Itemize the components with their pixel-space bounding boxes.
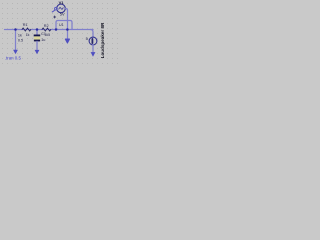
wire main node <box>5 29 94 31</box>
resistor R2 <box>42 28 51 31</box>
svg-text:1k: 1k <box>26 33 30 37</box>
wire capacitor to ground <box>36 41 38 50</box>
svg-text:1u: 1u <box>41 38 45 42</box>
wire left branch down <box>15 30 17 51</box>
wire V1 left stub <box>52 10 55 12</box>
node junction left <box>14 28 17 31</box>
node junction middle <box>66 28 69 31</box>
wire V1 right to down <box>66 9 68 40</box>
ground arrow left <box>13 50 18 54</box>
voltage source V1 <box>57 4 66 13</box>
capacitor C1 <box>34 35 41 42</box>
polarity mark <box>54 16 56 18</box>
resistor R1 <box>22 28 31 31</box>
svg-text:Loudspeaker 8R: Loudspeaker 8R <box>100 22 105 58</box>
wire capacitor branch <box>36 30 38 35</box>
svg-text:V1: V1 <box>59 0 65 5</box>
svg-text:.tran 0.5: .tran 0.5 <box>5 56 22 61</box>
ground arrow middle <box>65 39 69 43</box>
svg-text:R1: R1 <box>23 23 28 27</box>
svg-text:R2: R2 <box>44 24 49 28</box>
wire loop horizontal <box>56 21 72 30</box>
ground arrow capacitor <box>35 50 40 54</box>
svg-text:1k5: 1k5 <box>44 33 50 37</box>
wire right corner down <box>91 30 94 38</box>
node junction source <box>55 28 58 31</box>
wire meter to ground <box>92 45 94 53</box>
ground arrow right <box>91 52 96 57</box>
node junction capacitor <box>36 28 39 31</box>
svg-text:0.5: 0.5 <box>18 39 23 43</box>
svg-text:1k: 1k <box>18 33 22 37</box>
svg-text:5V: 5V <box>60 11 65 16</box>
svg-text:U1: U1 <box>59 23 64 27</box>
meter M1 <box>89 37 97 45</box>
